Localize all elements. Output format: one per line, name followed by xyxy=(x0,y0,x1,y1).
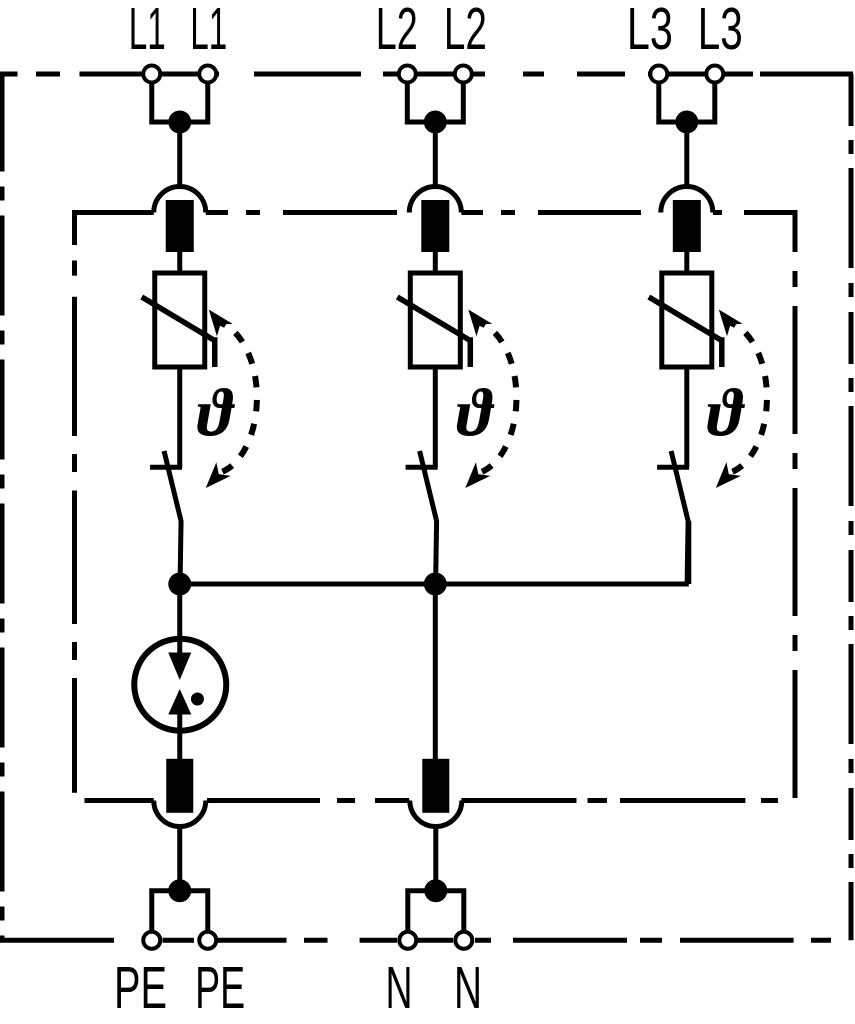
wire: varistor RV1 to switch F1 xyxy=(177,367,182,468)
varistor (MOV) RV2 diagonal stroke xyxy=(397,297,470,367)
wire: outer enclosure border right edge (dash-dot) xyxy=(849,74,854,940)
wire: inner SPD module boundary top edge (dash-dot) xyxy=(75,210,796,215)
node: rail junction dot at L2 xyxy=(424,573,447,596)
contact blade (black bar) L1 xyxy=(166,200,194,252)
contact bridge (plug-in arc) L3 over module boundary xyxy=(661,187,713,213)
contact blade (black bar) L3 xyxy=(673,200,701,252)
thermal disconnect switch F1 fixed contact bar xyxy=(150,465,182,470)
contact blade (black bar) L2 xyxy=(421,200,449,252)
svg-text:L2: L2 xyxy=(376,0,418,62)
wire: bridge to PE terminal junction xyxy=(177,825,182,891)
contact blade (black bar) N bottom xyxy=(422,759,449,813)
arrowhead (upper, pointing at varistor RV2) xyxy=(468,310,492,337)
spark gap (GDT) F1 envelope circle xyxy=(134,639,226,731)
node: junction dot above PE terminals xyxy=(168,879,191,902)
wire: outer enclosure border left edge (dash-dot) xyxy=(0,72,5,941)
thermal disconnect switch F2 fixed contact bar xyxy=(406,465,438,470)
wire: inner SPD module boundary right edge (dash-dot) xyxy=(793,210,798,803)
thermal disconnect switch F1 blade xyxy=(164,451,181,584)
wire: varistor RV2 to switch F2 xyxy=(433,367,438,468)
terminal L2 right circle xyxy=(455,66,472,83)
spark gap F1 lower electrode (up triangle) xyxy=(168,689,191,715)
wire: U-link joining L1 terminal pair xyxy=(152,84,208,122)
wire: varistor RV3 to switch F3 xyxy=(684,367,689,468)
varistor (MOV) RV3 body xyxy=(662,273,712,367)
wire: spark gap to PE contact xyxy=(177,714,182,761)
svg-text:PE: PE xyxy=(195,955,245,1021)
wire: L2 down-lead to plug contact xyxy=(433,122,438,188)
arrowhead (lower, pointing at switch F3) xyxy=(716,462,741,488)
contact bridge (plug-in arc) L1 over module boundary xyxy=(154,187,206,213)
thermal disconnect switch F2 blade xyxy=(420,451,437,584)
wire: inner SPD module boundary bottom edge (dash-dot) xyxy=(85,798,779,803)
svg-text:L3: L3 xyxy=(698,0,743,62)
wire: inner SPD module boundary left edge (dash-dot) xyxy=(72,210,77,793)
svg-text:N: N xyxy=(386,955,413,1021)
terminal N left circle xyxy=(399,932,416,949)
varistor (MOV) RV3 diagonal stroke xyxy=(649,297,722,367)
wire: U-link joining L3 terminal pair xyxy=(659,84,715,122)
varistor (MOV) RV1 diagonal stroke xyxy=(142,297,215,367)
arrowhead (lower, pointing at switch F2) xyxy=(465,462,490,488)
wire: rail to spark gap xyxy=(177,584,182,653)
svg-text:N: N xyxy=(454,955,482,1021)
spark gap F1 gas-filled indicator dot xyxy=(191,693,204,706)
wire: rail to N contact xyxy=(433,584,438,760)
wire: U-link joining L2 terminal pair xyxy=(407,84,463,122)
wire: contact to varistor L2 xyxy=(433,252,438,274)
node: junction dot below L1 terminals xyxy=(168,111,191,134)
thermal disconnect switch F3 blade xyxy=(671,451,688,584)
arrowhead (upper, pointing at varistor RV3) xyxy=(719,310,743,337)
wire: outer enclosure border bottom edge (dash-dot) xyxy=(0,938,831,943)
svg-text:L1: L1 xyxy=(129,0,166,62)
wire: L3 switch drop to rail xyxy=(686,521,691,584)
varistor (MOV) RV2 body xyxy=(410,273,460,367)
svg-text:L2: L2 xyxy=(444,0,487,62)
terminal L1 left circle xyxy=(143,66,160,83)
spark gap F1 upper electrode (down triangle) xyxy=(168,653,191,681)
arrowhead (lower, pointing at switch F1) xyxy=(206,462,231,488)
wire: U-link joining PE terminal pair xyxy=(152,891,208,930)
svg-text:L1: L1 xyxy=(190,0,227,62)
svg-text:ϑ: ϑ xyxy=(707,375,746,451)
node: junction dot below L3 terminals xyxy=(675,111,698,134)
contact bridge (plug-in arc) L2 over module boundary xyxy=(409,187,461,213)
thermal response dashed arrow arc for F3 xyxy=(724,322,767,474)
svg-text:ϑ: ϑ xyxy=(456,375,495,451)
wire: contact to varistor L3 xyxy=(684,252,689,274)
terminal L3 right circle xyxy=(706,66,723,83)
svg-text:L3: L3 xyxy=(627,0,673,62)
svg-text:PE: PE xyxy=(114,955,167,1021)
terminal L2 left circle xyxy=(399,66,416,83)
terminal N right circle xyxy=(455,932,472,949)
arrowhead (upper, pointing at varistor RV1) xyxy=(209,310,233,337)
wire: L3 down-lead to plug contact xyxy=(684,122,689,188)
terminal L3 left circle xyxy=(650,66,667,83)
node: junction dot above N terminals xyxy=(424,879,447,902)
varistor (MOV) RV1 body xyxy=(155,273,205,367)
contact bridge (plug-in arc) PE under module boundary xyxy=(154,801,206,827)
node: junction dot below L2 terminals xyxy=(424,111,447,134)
terminal PE left circle xyxy=(143,932,160,949)
thermal disconnect switch F3 fixed contact bar xyxy=(657,465,689,470)
terminal PE right circle xyxy=(199,932,216,949)
thermal response dashed arrow arc for F1 xyxy=(214,322,257,474)
node: rail junction dot at L1 xyxy=(168,573,191,596)
thermal response dashed arrow arc for F2 xyxy=(473,322,516,474)
svg-text:ϑ: ϑ xyxy=(197,375,236,451)
wire: L1 down-lead to plug contact xyxy=(177,122,182,188)
wire: bridge to N terminal junction xyxy=(433,825,438,891)
wire: U-link joining N terminal pair xyxy=(408,891,464,930)
wire: common junction rail L1-L2-L3 xyxy=(180,582,689,587)
contact blade (black bar) PE bottom xyxy=(166,759,193,813)
wire: contact to varistor L1 xyxy=(177,252,182,274)
contact bridge (plug-in arc) N under module boundary xyxy=(410,801,462,827)
wire: outer enclosure border top edge (dash-dot) xyxy=(3,72,854,77)
terminal L1 right circle xyxy=(199,66,216,83)
